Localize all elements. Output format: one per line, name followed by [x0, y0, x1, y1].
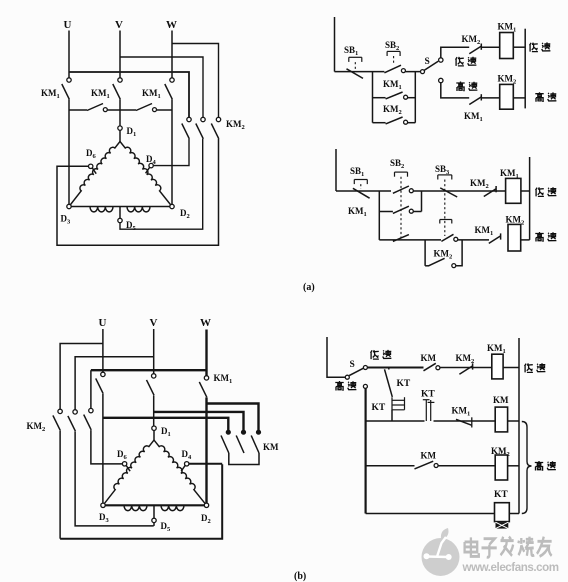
svg-text:KM1: KM1	[487, 343, 506, 355]
svg-text:KM1: KM1	[475, 225, 494, 237]
wire W line down to D2	[171, 99, 173, 204]
contact KM2 pole2 b	[73, 410, 77, 414]
wire D4 stub	[146, 168, 150, 174]
svg-text:KT: KT	[372, 403, 386, 413]
label high-speed bracket bc	[535, 461, 543, 471]
wire SB2 to S a1	[405, 71, 422, 73]
svg-text:D5: D5	[126, 220, 137, 232]
svg-text:D3: D3	[61, 214, 72, 226]
wire row1 mid bc	[440, 367, 492, 369]
svg-text:KM2: KM2	[27, 421, 46, 433]
symbol KT delay block bc	[496, 522, 509, 528]
svg-text:KT: KT	[494, 490, 508, 500]
wire KM1 coil to rail bc	[503, 367, 519, 369]
switch S blade a1	[424, 61, 438, 70]
wire D4 to KM2 pole 1	[153, 139, 189, 166]
svg-text:SB2: SB2	[385, 40, 399, 52]
wire KM2 pole3 to D6 b	[91, 430, 123, 464]
wire control main a1	[335, 71, 385, 73]
svg-text:D6: D6	[117, 449, 128, 461]
node D4 terminal b	[185, 462, 189, 466]
wire control main a2 seg2	[413, 190, 505, 192]
node junction a1 left	[372, 72, 374, 123]
contact KM1 interlock blade bc	[456, 419, 472, 425]
symbol KT delay bc	[392, 397, 405, 410]
contact KM1 interlock stop bc	[471, 417, 473, 427]
node SB2 fixed a2	[409, 189, 413, 193]
svg-text:KM: KM	[263, 442, 279, 452]
coil KM1 a1	[500, 33, 514, 59]
svg-text:KM1: KM1	[91, 88, 110, 100]
node D5 terminal b	[152, 518, 156, 522]
wire tie bus segment 3	[157, 109, 172, 111]
svg-text:KM1: KM1	[41, 88, 60, 100]
svg-text:KM2: KM2	[470, 178, 489, 190]
wire W to KM2 pole3 b	[91, 369, 207, 371]
switch S high contact a1	[439, 78, 443, 82]
svg-text:KM2: KM2	[226, 119, 245, 131]
contact tie blade V-W	[136, 104, 152, 111]
wire L2 rail a2	[529, 157, 531, 240]
switch S common node a1	[421, 70, 425, 74]
contact KM2 interlock blade a1	[469, 46, 481, 54]
wire tap W to KM pole3 b	[207, 404, 259, 431]
button SB2 link a2	[400, 177, 402, 238]
contact KM pole3 blade b	[251, 436, 259, 454]
contact KM pole1 dot b	[226, 430, 231, 435]
contact KM1 pole 3	[170, 78, 174, 82]
winding delta bottom coils b1	[124, 505, 147, 510]
node tie contact 1	[103, 108, 107, 112]
label low-speed a2	[536, 187, 544, 196]
wire to KM2 coil a1	[482, 97, 500, 99]
wire U to KM2 pole1 b	[60, 344, 103, 410]
winding delta bottom coil group 2	[127, 207, 150, 212]
wire row3 mid bc	[438, 465, 495, 467]
wire to KM1 coil a1	[482, 46, 500, 48]
svg-text:KM2: KM2	[456, 353, 475, 365]
button SB1 cap a2	[354, 179, 367, 181]
wire KT branch junction bc	[388, 368, 390, 370]
coil KM2 a2	[508, 224, 521, 251]
wire D5 stub	[119, 207, 121, 219]
contact KM2 selfhold blade a2	[429, 258, 445, 266]
svg-text:D2: D2	[180, 208, 190, 220]
contact KM pole1 blade b	[221, 436, 229, 454]
wire KT coil to rail bc	[509, 513, 519, 515]
wire L1 rail a1	[334, 17, 336, 72]
svg-text:D5: D5	[161, 521, 172, 533]
svg-text:KM1: KM1	[383, 79, 402, 91]
label low-speed after S bc	[371, 350, 379, 359]
wire W to KM2 pole 3 feed	[172, 44, 219, 118]
label high-speed after S a1	[456, 82, 464, 92]
wire D6 stub b	[126, 466, 130, 472]
button SB2 link a1	[393, 56, 395, 64]
svg-text:D1: D1	[161, 426, 171, 438]
wire row1 bc	[368, 367, 424, 369]
svg-text:KM1: KM1	[464, 111, 483, 123]
contact KM2 interlock stop bc	[472, 363, 474, 369]
label high-speed at S bc	[335, 381, 343, 391]
button SB2 NO blade a1	[384, 65, 401, 73]
label low-speed right bc	[525, 363, 533, 372]
contact KM1 selfhold blade a2	[393, 206, 409, 213]
contact KM pole2 dot b	[241, 430, 246, 435]
watermark brand text	[465, 537, 552, 558]
winding delta left side b	[103, 440, 154, 505]
button SB3 link a2	[444, 180, 446, 237]
wire L1 rail bc	[327, 337, 345, 377]
button SB1 NC blade a2	[353, 188, 370, 198]
node KM1 selfhold fixed a1	[404, 95, 408, 99]
svg-text:U: U	[64, 19, 72, 31]
contact KM1 interlock blade a1	[469, 97, 481, 105]
node D4 terminal	[149, 163, 153, 167]
switch S high contact bc	[363, 384, 367, 388]
node D6 terminal	[89, 164, 93, 168]
wire KM star bar b	[229, 453, 259, 465]
switch S blade bc	[349, 368, 363, 375]
contact KM2 pole 3	[216, 117, 220, 121]
wire tap U to KM pole1 b	[103, 418, 228, 431]
wire row3 mid a2	[456, 239, 489, 241]
wire tap V to KM pole2 b	[154, 412, 244, 430]
wire row3 bc	[366, 465, 415, 467]
wire W drop thick b	[205, 330, 207, 376]
watermark logo	[422, 528, 460, 576]
wire S low to branch a1	[441, 47, 469, 58]
svg-text:KT: KT	[421, 390, 435, 400]
svg-text:U: U	[99, 317, 107, 329]
wire V drop b	[153, 329, 155, 374]
wire L1 rail a2	[335, 149, 337, 191]
svg-text:KM1: KM1	[214, 373, 233, 385]
wire high bus bc	[365, 389, 367, 514]
wire branch KM2 a1	[373, 122, 386, 124]
wire L2 rail a1	[524, 29, 526, 109]
wire KM2 coil to bus a1	[513, 97, 525, 99]
svg-text:(b): (b)	[294, 571, 306, 582]
contact KM pole3 dot b	[256, 430, 261, 435]
wire row2 mid bc	[434, 420, 496, 422]
svg-text:V: V	[150, 317, 158, 329]
wire row2 bc	[366, 420, 425, 422]
contact KM1 selfhold blade a1	[386, 92, 403, 99]
label low-speed output a1	[530, 43, 538, 52]
wire U drop	[68, 31, 70, 78]
svg-text:(a): (a)	[303, 282, 315, 293]
svg-text:V: V	[115, 19, 123, 31]
wire KM2 coil to rail a2	[521, 239, 530, 241]
svg-text:S: S	[350, 360, 355, 370]
wire V line down to D1	[119, 99, 121, 126]
wire KM2 selfhold right a2	[456, 240, 462, 266]
switch S common node bc	[345, 375, 349, 379]
svg-text:KM1: KM1	[348, 206, 367, 218]
svg-text:SB2: SB2	[390, 158, 404, 170]
contact KM1 pole 2	[118, 78, 122, 82]
svg-text:KM1: KM1	[452, 406, 471, 418]
winding delta bottom side b	[103, 504, 207, 506]
node SB2 fixed a1	[401, 69, 405, 73]
winding delta bottom side	[69, 206, 172, 208]
label high-speed a2	[535, 232, 543, 242]
svg-text:KM: KM	[421, 353, 437, 363]
coil KM2 bc	[495, 455, 507, 480]
node D1 terminal	[118, 126, 122, 130]
svg-text:W: W	[200, 317, 211, 329]
node D6 terminal b	[122, 462, 126, 466]
wire U to KM2 pole 1 feed	[69, 72, 189, 117]
contact KM1 interlock stop a1	[480, 94, 482, 100]
coil KT bc	[495, 503, 510, 522]
contact SB2 NC blade a2 row3	[393, 235, 409, 242]
button SB1 link a2	[360, 184, 362, 189]
wire KM1 coil to bus a1	[513, 46, 525, 48]
node D2 terminal	[170, 204, 174, 208]
wire row3 a2	[379, 239, 441, 241]
button SB1 cap a1	[349, 56, 362, 58]
switch S low contact a1	[439, 58, 443, 62]
svg-text:SB1: SB1	[344, 45, 358, 57]
winding delta right side	[120, 142, 172, 207]
contact KM2 interlock stop a1	[480, 44, 482, 50]
wire branch KM2 right a1	[408, 122, 416, 124]
wire box right vertical a1	[414, 72, 416, 123]
switch S low contact bc	[363, 366, 367, 370]
svg-text:S: S	[425, 57, 430, 67]
svg-text:KM: KM	[493, 395, 509, 405]
wire W drop	[171, 31, 173, 78]
node KM NO fixed bc row1	[436, 366, 440, 370]
wire tie bus segment 1	[69, 109, 87, 111]
wire D1 stub b	[153, 430, 155, 440]
wire D4 link b	[189, 463, 222, 465]
svg-text:D2: D2	[201, 513, 211, 525]
contact SB2 NO blade a2	[393, 186, 409, 193]
button SB1 link a1	[354, 62, 356, 70]
node D3 terminal	[67, 204, 71, 208]
wire D6 to KM2 pole 3	[57, 139, 219, 246]
contact KM1 pole3 b	[204, 376, 208, 380]
contact KM1 pole2 b	[152, 374, 156, 378]
contact KM2 pole1 b	[58, 409, 62, 413]
contact KM1 interlock stop a2	[500, 233, 502, 239]
bracket high-speed group bc	[522, 422, 532, 514]
button SB3 cap a2	[438, 174, 452, 176]
contact KM NO blade bc row1	[424, 363, 436, 371]
svg-text:SB1: SB1	[350, 166, 364, 178]
wire KM2 pole3 drop b	[90, 370, 92, 408]
button SB3 lower cap a2	[440, 219, 452, 221]
wire row4 bc	[366, 513, 495, 515]
wire bottom run to D4 b	[60, 464, 222, 539]
winding delta left side	[69, 142, 120, 207]
contact KM1 pole1 b	[101, 372, 105, 376]
node D5 terminal	[118, 218, 122, 222]
contact KM2 pole3 b	[89, 408, 93, 412]
contact KM2 interlock stop a2	[495, 186, 497, 192]
svg-text:KM: KM	[421, 451, 437, 461]
svg-text:D6: D6	[86, 148, 97, 160]
node D2 terminal b	[204, 503, 208, 507]
wire KM1 coil to rail a2	[521, 190, 530, 192]
coil KM2 a1	[500, 84, 514, 109]
button SB1 NC blade a1	[347, 69, 364, 79]
wire D5 lower stub b	[153, 523, 155, 526]
wire D5 to KM2 pole 2	[120, 139, 203, 230]
wire KT branch to row2 bc	[391, 410, 393, 421]
coil KM1 bc	[492, 354, 503, 379]
coil KM bc	[495, 407, 507, 432]
contact KM2 interlock blade a2	[484, 189, 497, 197]
button SB2 cap a2	[395, 171, 408, 173]
svg-text:KT: KT	[397, 379, 411, 389]
contact KM1 interlock blade a2	[489, 236, 501, 244]
wire KM2 selfhold down a2	[424, 240, 426, 266]
contact KM2 interlock blade bc	[459, 366, 472, 374]
wire V line to D1 b	[153, 395, 155, 426]
contact KM pole2 blade b	[236, 436, 244, 454]
svg-text:D3: D3	[99, 512, 110, 524]
wire KM2 coil to rail bc	[508, 465, 519, 467]
contact tie blade U-V	[87, 104, 103, 111]
wire KM2 selfhold bottom a2	[425, 265, 429, 267]
wire KM2 pole1 to D4 b	[59, 431, 61, 539]
node KM NO fixed bc row3	[434, 464, 438, 468]
wire control main a2 seg1	[336, 190, 391, 192]
svg-text:KM2: KM2	[383, 104, 402, 116]
contact KM2 selfhold blade a1	[386, 117, 403, 124]
node KM2 selfhold fixed a1	[404, 120, 408, 124]
wire L2 rail bc	[518, 338, 520, 514]
contact SB3 NO blade a2	[441, 234, 453, 241]
winding delta bottom coil group 1	[90, 207, 113, 212]
svg-text:D4: D4	[182, 449, 193, 461]
svg-text:KM2: KM2	[462, 34, 481, 46]
node D3 terminal b	[101, 503, 105, 507]
wire U line down to D3	[68, 99, 70, 204]
svg-text:www.elecfans.com: www.elecfans.com	[462, 561, 559, 574]
node A vertical a2	[378, 191, 380, 240]
contact KM NO blade bc row3	[415, 461, 434, 469]
winding delta right side b	[154, 440, 207, 505]
button SB2 cap a1	[387, 50, 400, 52]
wire row2 a2	[379, 211, 393, 213]
wire D6 stub	[92, 168, 96, 174]
wire branch KM1 right a1	[408, 97, 416, 99]
wire W line to D2 b	[205, 397, 207, 503]
node KM1 selfhold fixed a2	[409, 209, 413, 213]
wire D4 stub b	[181, 466, 185, 472]
wire V to KM2 pole 2 feed	[120, 57, 203, 117]
wire D1 stub to apex	[119, 130, 121, 141]
wire row2 right a2	[413, 211, 421, 213]
coil KM1 a2	[506, 178, 521, 203]
contact KT NC timed blade bc	[385, 369, 393, 397]
contact KM2 pole 2	[201, 117, 205, 121]
wire S high to branch a1	[441, 83, 469, 98]
wire tie bus segment 2	[108, 109, 137, 111]
wire D5 stub b	[153, 505, 155, 518]
contact KM2 pole 1	[187, 117, 191, 121]
wire U drop b	[102, 329, 104, 372]
node KM2 selfhold fixed a2	[452, 264, 456, 268]
svg-text:KM1: KM1	[142, 88, 161, 100]
label high-speed output a1	[535, 92, 543, 102]
node SB3 fixed a2	[454, 237, 458, 241]
contact KM1 pole 1	[67, 78, 71, 82]
wire branch KM1 a1	[373, 97, 386, 99]
contact SB3 NC blade a2	[440, 188, 457, 197]
node tie contact 2	[153, 108, 157, 112]
wire KM2 pole2 to D5 b	[75, 431, 154, 526]
symbol KT NO timed bc	[425, 400, 427, 421]
wire U line to D3 b	[102, 394, 104, 503]
wire KM coil to rail bc	[508, 420, 519, 422]
svg-text:D1: D1	[127, 126, 137, 138]
label low-speed after S a1	[456, 57, 464, 66]
winding delta bottom coils b2	[161, 505, 184, 510]
wire V to KM2 pole2 b	[75, 357, 154, 410]
node D1 terminal b	[152, 426, 156, 430]
svg-text:W: W	[166, 19, 177, 31]
wire V drop	[119, 31, 121, 78]
wire selfhold return a2	[421, 191, 423, 212]
